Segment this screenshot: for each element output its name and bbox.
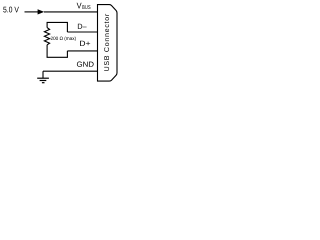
wire from D- line to resistor top bbox=[47, 22, 67, 32]
wire from resistor bottom to D+ line bbox=[47, 45, 67, 58]
resistor value label 200 ohm (max) bbox=[51, 36, 76, 41]
node label VBUS bbox=[77, 3, 91, 9]
supply label 5.0 V bbox=[3, 7, 19, 13]
pin label D- bbox=[78, 24, 87, 29]
pin label GND bbox=[77, 62, 94, 67]
wire D+ bbox=[67, 50, 97, 52]
resistor R1 zigzag body bbox=[44, 28, 49, 45]
wire VBUS bbox=[44, 11, 98, 13]
arrow from 5.0 V supply bbox=[25, 9, 45, 14]
ground bbox=[37, 71, 49, 83]
USB connector box bbox=[98, 5, 118, 82]
USB connector label bbox=[104, 14, 109, 71]
pin label D+ bbox=[80, 41, 90, 46]
wire GND bbox=[43, 70, 98, 72]
wire D- bbox=[67, 31, 97, 33]
